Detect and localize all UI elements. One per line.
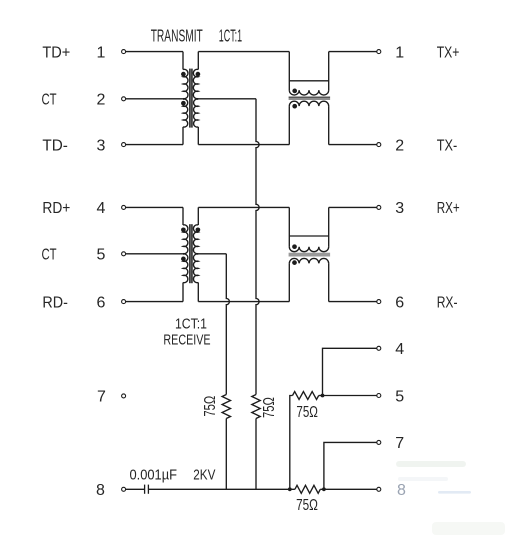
T2 primary upper winding bbox=[183, 225, 188, 254]
svg-text:RX-: RX- bbox=[437, 294, 458, 311]
wire pin6 to T2 primary bottom bbox=[126, 301, 183, 303]
wire L2 to pin 6 RX- bbox=[329, 301, 377, 303]
svg-text:1CT:1: 1CT:1 bbox=[175, 316, 207, 333]
faint smudge 3 bbox=[438, 491, 471, 494]
L1 phase dot bottom bbox=[292, 104, 297, 109]
T1 primary upper winding bbox=[183, 69, 188, 98]
wire T2 secondary top to L2 bbox=[198, 206, 289, 208]
svg-text:7: 7 bbox=[97, 389, 106, 406]
T2 core bbox=[190, 224, 191, 283]
terminal pin 2 left bbox=[122, 97, 126, 101]
T2 phase dot secondary top bbox=[196, 227, 201, 232]
terminal pin 4 left bbox=[122, 205, 126, 209]
terminal pin 1 right bbox=[377, 50, 381, 54]
T1 phase dot primary top bbox=[181, 72, 186, 77]
terminal pin 8 right bbox=[377, 487, 381, 491]
svg-text:TD+: TD+ bbox=[42, 44, 70, 61]
wire T1 CT down to R2 (hops 3 wires) bbox=[256, 99, 259, 395]
T1 primary lower winding bbox=[183, 99, 188, 127]
wire pin2 to T1 primary CT bbox=[126, 98, 185, 100]
T2 secondary bottom lead bbox=[197, 283, 199, 302]
wire junction up to pin 7 bbox=[324, 442, 377, 489]
svg-text:CT: CT bbox=[42, 92, 57, 109]
svg-text:75Ω: 75Ω bbox=[202, 396, 219, 417]
T2 phase dot primary top bbox=[181, 227, 186, 232]
L2 core (gray bar) bbox=[289, 253, 331, 257]
T2 primary bottom lead bbox=[182, 283, 184, 302]
svg-text:3: 3 bbox=[97, 137, 106, 154]
L1 top winding bbox=[289, 90, 328, 95]
node rail-R4 right junction dot bbox=[322, 487, 326, 491]
wire T2 secondary bottom to L2 bbox=[198, 301, 289, 303]
T2 primary lower winding bbox=[183, 254, 188, 283]
terminal pin 5 right bbox=[377, 394, 381, 398]
svg-text:5: 5 bbox=[97, 247, 106, 264]
svg-text:3: 3 bbox=[395, 200, 404, 217]
svg-text:RD-: RD- bbox=[42, 294, 68, 311]
R1 lower lead bbox=[225, 419, 227, 490]
svg-text:1: 1 bbox=[395, 44, 404, 61]
svg-text:75Ω: 75Ω bbox=[296, 404, 318, 421]
R2 lower lead bbox=[255, 419, 257, 490]
wire pin3 to T1 primary bottom bbox=[126, 144, 183, 146]
wire pin8 left to capacitor bbox=[126, 488, 144, 490]
L2 left vertical lower bbox=[288, 263, 290, 301]
svg-text:0.001µF: 0.001µF bbox=[130, 466, 178, 483]
T1 primary bottom lead bbox=[182, 127, 184, 145]
terminal pin 8 left bbox=[122, 487, 126, 491]
wire T1 secondary top to L1 bbox=[198, 51, 289, 53]
bottom rail wire right of R4 bbox=[320, 488, 376, 490]
wire T1 secondary bottom to L1 bbox=[198, 144, 289, 146]
L1 phase dot top bbox=[292, 89, 297, 94]
svg-text:RD+: RD+ bbox=[42, 200, 70, 217]
svg-text:5: 5 bbox=[395, 388, 404, 405]
L2 top chord bbox=[289, 235, 328, 237]
wire T2 CT down to R1 (hops 1 wire) bbox=[226, 254, 229, 395]
terminal pin 5 left bbox=[122, 252, 126, 256]
terminal pin 1 left bbox=[122, 50, 126, 54]
T1 secondary lower winding bbox=[194, 99, 199, 127]
svg-text:1CT:1: 1CT:1 bbox=[219, 26, 242, 46]
svg-text:75Ω: 75Ω bbox=[296, 497, 318, 514]
L1 left vertical lower bbox=[288, 106, 290, 145]
L2 phase dot bottom bbox=[292, 260, 297, 265]
wire L1 to pin 1 TX+ bbox=[329, 51, 377, 53]
T1 core bbox=[190, 69, 191, 128]
svg-text:2KV: 2KV bbox=[193, 466, 215, 483]
L2 right vertical lower bbox=[328, 263, 330, 301]
svg-text:2: 2 bbox=[97, 92, 106, 109]
wire L2 to pin 3 RX+ bbox=[329, 206, 377, 208]
wire pin1 to T1 primary top bbox=[126, 51, 183, 53]
R3 right lead bbox=[319, 395, 323, 397]
capacitor C1 0.001uF 2KV bbox=[144, 485, 146, 494]
wire T1 secondary CT bbox=[197, 98, 256, 100]
T2 primary top lead bbox=[182, 207, 184, 225]
bottom rail wire left of R4 bbox=[149, 488, 295, 490]
terminal pin 6 right bbox=[377, 300, 381, 304]
svg-text:4: 4 bbox=[97, 200, 106, 217]
L2 phase dot top bbox=[292, 244, 297, 249]
L2 right vertical upper bbox=[328, 207, 330, 246]
node rail-R4 left junction dot bbox=[288, 487, 292, 491]
wire pin4 to T2 primary top bbox=[126, 206, 183, 208]
terminal pin 6 left bbox=[122, 300, 126, 304]
resistor R3 75ohm horizontal bbox=[293, 392, 319, 400]
terminal pin 3 left bbox=[122, 143, 126, 147]
L1 right vertical lower bbox=[328, 106, 330, 145]
svg-text:TRANSMIT: TRANSMIT bbox=[151, 26, 203, 46]
terminal pin 4 right bbox=[377, 346, 381, 350]
terminal pin 2 right bbox=[377, 143, 381, 147]
wire junction to pin 5 bbox=[323, 395, 377, 397]
svg-text:TX-: TX- bbox=[437, 137, 458, 154]
svg-text:2: 2 bbox=[395, 137, 404, 154]
T1 secondary upper winding bbox=[193, 69, 198, 98]
R3 left lead and drop to rail bbox=[290, 396, 293, 490]
faint smudge 2 bbox=[398, 477, 448, 481]
wire T2 secondary CT bbox=[197, 253, 226, 255]
T2 secondary top lead bbox=[197, 207, 199, 225]
wire pin5 to T2 primary CT bbox=[126, 253, 185, 255]
T1 secondary bottom lead bbox=[197, 127, 199, 145]
wire junction up to pin 4 bbox=[323, 348, 377, 395]
T1 phase dot secondary top bbox=[196, 72, 201, 77]
T2 secondary upper winding bbox=[193, 225, 198, 254]
L2 left vertical upper bbox=[288, 207, 290, 246]
L1 left vertical upper bbox=[288, 52, 290, 91]
T1 phase dot primary lower bbox=[181, 101, 186, 106]
L1 core bbox=[289, 96, 331, 98]
faint smudge 1 bbox=[396, 461, 466, 467]
L2 top winding bbox=[289, 247, 328, 252]
node R3-right junction dot bbox=[321, 394, 325, 398]
svg-text:6: 6 bbox=[395, 294, 404, 311]
L1 right vertical upper bbox=[328, 52, 330, 91]
svg-text:75Ω: 75Ω bbox=[261, 397, 278, 418]
svg-text:8: 8 bbox=[96, 482, 105, 499]
T2 phase dot primary lower bbox=[181, 257, 186, 262]
T1 primary top lead bbox=[182, 52, 184, 70]
svg-text:TX+: TX+ bbox=[437, 44, 460, 61]
resistor R1 75ohm vertical bbox=[222, 395, 230, 419]
svg-text:4: 4 bbox=[395, 341, 404, 358]
svg-text:7: 7 bbox=[395, 435, 404, 452]
T1 secondary top lead bbox=[197, 52, 199, 70]
terminal pin 7 left (unconnected) bbox=[122, 394, 126, 398]
svg-text:TD-: TD- bbox=[42, 137, 68, 154]
svg-text:RECEIVE: RECEIVE bbox=[163, 332, 210, 349]
L1 bottom winding bbox=[289, 101, 328, 106]
svg-text:1: 1 bbox=[97, 44, 106, 61]
terminal pin 3 right bbox=[377, 205, 381, 209]
terminal pin 7 right bbox=[377, 440, 381, 444]
L2 bottom winding bbox=[289, 258, 328, 263]
svg-text:8: 8 bbox=[397, 482, 406, 499]
svg-text:6: 6 bbox=[97, 294, 106, 311]
wire L1 to pin 2 TX- bbox=[329, 144, 377, 146]
faint smudge 4 bbox=[432, 522, 505, 535]
resistor R2 75ohm vertical bbox=[252, 395, 260, 419]
svg-text:RX+: RX+ bbox=[437, 200, 460, 217]
resistor R4 75ohm horizontal bbox=[295, 485, 320, 493]
L1 top chord bbox=[289, 80, 328, 82]
T2 secondary lower winding bbox=[193, 254, 198, 283]
svg-text:CT: CT bbox=[42, 247, 57, 264]
